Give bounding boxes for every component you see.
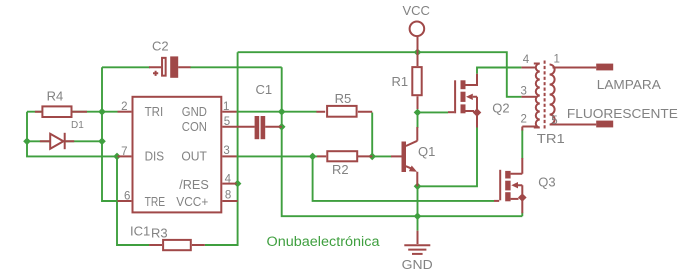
- wire GND net vertical and bottom rail: [282, 67, 523, 216]
- wire TRI/TRE net vertical x=102: [102, 67, 118, 201]
- capacitor C1: [255, 116, 260, 139]
- node junction pin1 GND row: [278, 108, 286, 116]
- wire Q3 drain mid: [521, 130, 523, 159]
- svg-text:4: 4: [225, 174, 232, 186]
- wire emitter junction down to GND: [417, 186, 419, 230]
- svg-text:Q3: Q3: [538, 175, 555, 190]
- svg-text:VCC+: VCC+: [176, 194, 208, 209]
- transistor Q3 MOSFET: [494, 200, 499, 202]
- wire top VCC rail to transformer pin3: [238, 52, 522, 97]
- svg-text:R3: R3: [151, 225, 168, 240]
- node junction VCC: [414, 48, 422, 56]
- svg-text:Q2: Q2: [492, 100, 509, 115]
- node junction D1 cathode: [98, 138, 106, 146]
- resistor R2: [317, 155, 372, 157]
- wire pin1/R5 row: [237, 111, 317, 113]
- pin 3 stub: [222, 155, 236, 157]
- node junction pin4 /RES: [234, 180, 242, 188]
- transformer pin 5 wire: [550, 124, 596, 126]
- pin 1 stub: [222, 111, 236, 113]
- wire C2 right: [190, 66, 282, 68]
- node junction OUT: [309, 153, 317, 161]
- svg-text:D1: D1: [71, 120, 84, 131]
- wire R2 right to Q1 base: [372, 155, 391, 157]
- pin 5 stub to C1: [222, 126, 254, 128]
- svg-text:8: 8: [225, 189, 231, 201]
- svg-text:2: 2: [121, 101, 127, 113]
- svg-text:3: 3: [223, 145, 229, 157]
- pin 7 stub: [118, 155, 132, 157]
- svg-text:FLUORESCENTE: FLUORESCENTE: [567, 106, 678, 121]
- transformer pin 4 wire: [521, 67, 536, 69]
- transformer pin 1 wire: [553, 67, 597, 69]
- wire emitter row to Q2 source: [418, 127, 478, 186]
- svg-text:/RES: /RES: [179, 177, 209, 192]
- transformer TR1 primary winding: [534, 64, 540, 128]
- op-amp U1 IC1 555 box: [133, 97, 222, 213]
- svg-text:2: 2: [521, 113, 527, 125]
- svg-text:R4: R4: [47, 88, 64, 103]
- svg-text:R2: R2: [332, 162, 349, 177]
- node junction R4 right / TRI: [98, 108, 106, 116]
- transformer pin 3 wire: [521, 96, 536, 98]
- node junction R2 right: [368, 153, 376, 161]
- svg-text:TR1: TR1: [537, 131, 565, 146]
- svg-text:Q1: Q1: [418, 144, 435, 159]
- node junction DIS: [113, 153, 121, 161]
- svg-text:OUT: OUT: [181, 149, 207, 164]
- wire VCC net vertical to pin8 and R3: [205, 52, 238, 245]
- svg-text:CON: CON: [182, 119, 207, 134]
- wire Q2 gate row: [418, 111, 449, 113]
- transistor Q2 MOSFET: [448, 111, 454, 113]
- power VCC symbol: [410, 22, 425, 37]
- svg-text:7: 7: [121, 146, 127, 158]
- transformer pin 2 wire to Q3 drain: [522, 127, 536, 131]
- resistor R4: [35, 111, 87, 113]
- diode D1: [40, 140, 74, 142]
- wire R1 bottom to Q1 collector: [417, 114, 419, 128]
- pin 2 stub: [118, 111, 132, 113]
- svg-text:TRE: TRE: [145, 194, 166, 209]
- capacitor C2: [149, 66, 191, 68]
- wire D1 row: [27, 140, 102, 142]
- node junction C1 right: [278, 123, 286, 131]
- terminal pad lamp bottom: [596, 121, 613, 128]
- resistor R1: [417, 96, 419, 109]
- svg-text:4: 4: [523, 54, 530, 66]
- svg-text:1: 1: [223, 101, 229, 113]
- resistor R5: [316, 111, 372, 113]
- wire OUT to Q3 gate: [313, 156, 494, 201]
- wire Q2 drain to transformer pin4: [477, 68, 521, 74]
- wire R5 right to R2 right link: [371, 113, 373, 157]
- node junction D1 anode: [23, 138, 31, 146]
- svg-text:C2: C2: [152, 39, 169, 54]
- wire Q3 source bottom: [521, 213, 523, 217]
- svg-text:DIS: DIS: [145, 149, 165, 164]
- svg-text:IC1: IC1: [130, 224, 150, 239]
- svg-text:TRI: TRI: [145, 104, 164, 119]
- pin 4 stub: [222, 183, 236, 185]
- transistor Q1: [391, 155, 402, 157]
- wire R4 row: [27, 111, 118, 113]
- node junction R1 bottom / Q2 gate: [414, 109, 422, 117]
- pin 8 stub: [222, 200, 237, 202]
- ground symbol GND: [417, 231, 419, 244]
- svg-text:R5: R5: [335, 91, 352, 106]
- transformer TR1 core: [544, 61, 546, 131]
- svg-text:R1: R1: [392, 74, 409, 89]
- terminal pad lamp top: [596, 64, 613, 71]
- svg-text:5: 5: [551, 115, 557, 127]
- svg-text:LAMPARA: LAMPARA: [597, 77, 661, 92]
- svg-text:3: 3: [521, 86, 527, 98]
- wire DIS to R3: [117, 156, 149, 245]
- svg-text:5: 5: [224, 116, 230, 128]
- node junction emitter / Q2 source: [414, 183, 422, 191]
- pin 6 stub: [118, 200, 132, 202]
- wire left vertical R4/D1/DIS: [27, 112, 118, 157]
- transformer TR1 secondary winding: [550, 65, 555, 125]
- wire VCC junction to R1: [417, 52, 419, 58]
- svg-text:GND: GND: [402, 257, 433, 272]
- svg-text:C1: C1: [256, 82, 273, 97]
- svg-text:6: 6: [124, 190, 130, 202]
- resistor R3: [149, 244, 205, 246]
- node junction GND rail: [414, 212, 422, 220]
- svg-text:VCC: VCC: [402, 3, 429, 18]
- svg-text:Onubaelectrónica: Onubaelectrónica: [267, 234, 381, 249]
- svg-text:GND: GND: [182, 104, 207, 119]
- wire OUT row: [237, 155, 317, 157]
- wire C2 left: [102, 66, 150, 68]
- svg-text:1: 1: [554, 53, 560, 65]
